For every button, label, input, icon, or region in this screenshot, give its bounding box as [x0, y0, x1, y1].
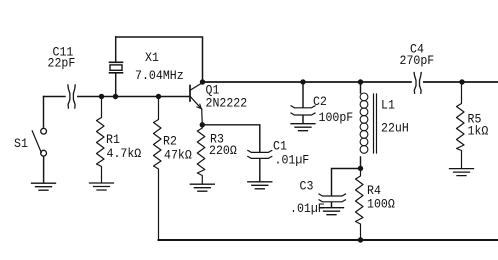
- svg-text:4.7kΩ: 4.7kΩ: [107, 146, 142, 161]
- node emitter: [200, 122, 205, 127]
- node base-crystal: [113, 94, 118, 99]
- wire bottom rail: [159, 239, 498, 241]
- ground (C1): [248, 182, 272, 189]
- node base-R1: [99, 94, 104, 99]
- svg-text:100pF: 100pF: [319, 110, 354, 125]
- svg-text:47kΩ: 47kΩ: [164, 148, 192, 163]
- wire top loop to collector: [116, 37, 203, 82]
- wire emitter to C1: [202, 125, 259, 152]
- ground (R1): [90, 183, 114, 190]
- transistor Q1: [189, 86, 191, 102]
- wire crystal bottom lead: [115, 74, 117, 97]
- resistor R2: [154, 97, 162, 241]
- svg-text:22uH: 22uH: [381, 121, 409, 136]
- capacitor C4: [414, 73, 416, 94]
- crystal X1: [110, 61, 123, 63]
- node C2 top: [300, 79, 305, 84]
- svg-text:L1: L1: [381, 98, 395, 113]
- inductor L1 core lines: [374, 94, 377, 153]
- wire crystal top lead: [115, 37, 117, 62]
- inductor L1: [360, 82, 362, 93]
- svg-text:S1: S1: [14, 136, 28, 151]
- wire collector rail: [203, 81, 412, 83]
- svg-text:270pF: 270pF: [400, 53, 435, 68]
- ground (R3): [190, 184, 214, 191]
- wire C1 to ground: [259, 159, 261, 182]
- wire collector rail right of C4: [424, 81, 498, 83]
- wire node to C3: [332, 169, 361, 196]
- capacitor C1: [248, 150, 272, 152]
- svg-text:2N2222: 2N2222: [206, 96, 248, 111]
- svg-text:.01µF: .01µF: [290, 201, 325, 216]
- wire S1 to ground: [43, 156, 45, 183]
- capacitor C2: [302, 82, 304, 107]
- node L1 top: [358, 79, 363, 84]
- wire base rail left segment: [44, 96, 66, 98]
- switch S1: [41, 128, 47, 134]
- capacitor C3: [319, 194, 346, 196]
- wire base rail right segment: [78, 96, 190, 98]
- node collector: [200, 79, 205, 84]
- svg-text:1kΩ: 1kΩ: [468, 124, 489, 139]
- resistor R5: [457, 82, 465, 168]
- capacitor C11: [68, 85, 70, 108]
- resistor R1: [97, 97, 105, 183]
- svg-text:X1: X1: [145, 50, 159, 65]
- ground (C2): [291, 124, 315, 131]
- svg-text:220Ω: 220Ω: [209, 143, 237, 158]
- svg-text:R1: R1: [106, 132, 120, 147]
- wire left drop to S1: [43, 97, 45, 127]
- svg-text:C1: C1: [273, 139, 287, 154]
- svg-text:7.04MHz: 7.04MHz: [135, 68, 184, 83]
- svg-text:.01µF: .01µF: [275, 153, 310, 168]
- svg-text:100Ω: 100Ω: [367, 197, 395, 212]
- svg-text:R2: R2: [163, 134, 177, 149]
- node L1 bottom: [358, 166, 363, 171]
- ground (C3): [320, 208, 344, 215]
- ground (S1): [32, 183, 56, 190]
- svg-text:C2: C2: [313, 94, 327, 109]
- node R5 top: [459, 79, 464, 84]
- node bottom rail R4: [358, 237, 363, 242]
- resistor R4: [356, 168, 364, 240]
- resistor R3: [197, 125, 205, 184]
- svg-text:C3: C3: [300, 179, 314, 194]
- svg-text:22pF: 22pF: [48, 56, 76, 71]
- node base-R2: [156, 94, 161, 99]
- ground (R5): [450, 169, 474, 176]
